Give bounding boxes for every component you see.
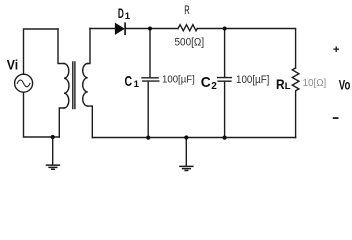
svg-text:L: L — [285, 81, 291, 92]
svg-text:+: + — [333, 44, 339, 56]
svg-text:1: 1 — [125, 11, 131, 22]
svg-text:1: 1 — [134, 79, 140, 90]
svg-text:D: D — [118, 5, 124, 21]
svg-text:R: R — [184, 3, 190, 17]
svg-text:2: 2 — [211, 81, 217, 92]
svg-text:Vo: Vo — [339, 78, 351, 93]
svg-text:C: C — [201, 74, 211, 91]
svg-text:100[µF]: 100[µF] — [162, 75, 195, 86]
svg-text:R: R — [276, 76, 285, 92]
svg-text:100[µF]: 100[µF] — [236, 74, 269, 86]
svg-text:C: C — [125, 73, 133, 90]
svg-text:10[Ω]: 10[Ω] — [303, 78, 327, 89]
svg-text:Vi: Vi — [7, 57, 18, 73]
svg-text:500[Ω]: 500[Ω] — [175, 37, 205, 49]
